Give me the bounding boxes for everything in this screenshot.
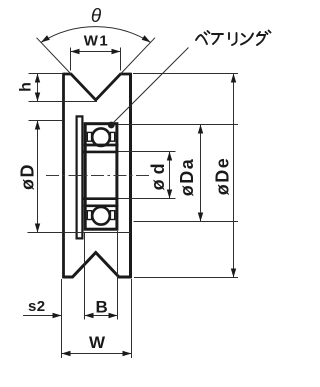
svg-text:øDa: øDa	[177, 158, 197, 197]
svg-text:W: W	[89, 333, 106, 352]
svg-text:W1: W1	[84, 33, 110, 50]
svg-text:øD: øD	[18, 163, 38, 190]
svg-text:s2: s2	[28, 298, 46, 315]
svg-text:θ: θ	[91, 6, 102, 27]
svg-text:h: h	[17, 82, 34, 92]
svg-text:øDe: øDe	[213, 157, 233, 196]
svg-text:ød: ød	[148, 158, 168, 190]
svg-text:B: B	[96, 298, 108, 317]
